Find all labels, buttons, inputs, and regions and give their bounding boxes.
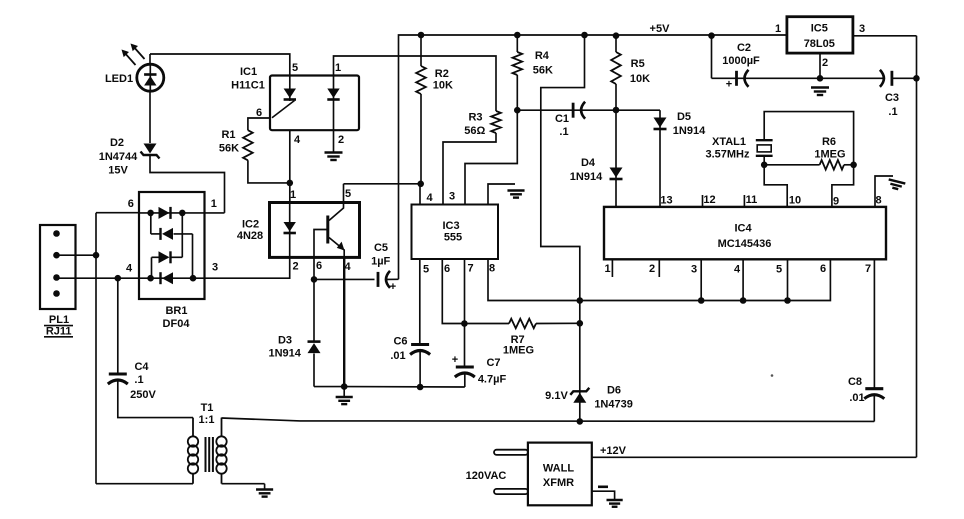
svg-text:1: 1	[335, 62, 341, 74]
svg-text:C4: C4	[134, 361, 149, 373]
svg-text:56K: 56K	[219, 143, 239, 155]
svg-text:4N28: 4N28	[237, 230, 263, 242]
svg-text:3: 3	[449, 191, 455, 203]
svg-text:1N914: 1N914	[570, 171, 603, 183]
svg-text:.01: .01	[390, 350, 405, 362]
svg-text:D6: D6	[607, 385, 621, 397]
svg-text:H11C1: H11C1	[231, 80, 265, 92]
svg-text:.1: .1	[134, 374, 143, 386]
svg-text:5: 5	[345, 188, 351, 200]
svg-text:+: +	[452, 354, 458, 366]
svg-text:IC1: IC1	[240, 66, 257, 78]
svg-text:1N914: 1N914	[268, 348, 301, 360]
svg-text:1MEG: 1MEG	[814, 149, 845, 161]
svg-text:6: 6	[256, 107, 262, 119]
svg-text:4: 4	[294, 134, 301, 146]
svg-text:R4: R4	[535, 50, 550, 62]
svg-text:C5: C5	[374, 242, 388, 254]
svg-text:R3: R3	[468, 112, 482, 124]
svg-text:3: 3	[691, 264, 697, 276]
svg-text:1000µF: 1000µF	[722, 55, 760, 67]
svg-text:IC4: IC4	[734, 223, 752, 235]
svg-text:56K: 56K	[533, 65, 553, 77]
svg-text:8: 8	[489, 263, 495, 275]
svg-text:MC145436: MC145436	[718, 238, 772, 250]
svg-text:IC5: IC5	[811, 23, 828, 35]
svg-text:1:1: 1:1	[199, 414, 215, 426]
svg-text:WALL: WALL	[543, 463, 574, 475]
svg-text:5: 5	[292, 62, 298, 74]
svg-text:56Ω: 56Ω	[464, 125, 485, 137]
svg-text:D3: D3	[278, 335, 292, 347]
svg-text:4: 4	[344, 261, 351, 273]
svg-text:IC2: IC2	[242, 219, 259, 231]
svg-text:5: 5	[776, 264, 782, 276]
svg-text:C2: C2	[737, 42, 751, 54]
svg-text:+: +	[390, 281, 396, 293]
svg-text:+: +	[726, 79, 732, 91]
svg-text:9: 9	[833, 196, 839, 208]
svg-text:LED1: LED1	[105, 73, 133, 85]
svg-text:3.57MHz: 3.57MHz	[705, 149, 750, 161]
svg-text:.1: .1	[888, 106, 897, 118]
svg-text:12: 12	[703, 194, 715, 206]
svg-text:.1: .1	[559, 126, 568, 138]
svg-text:D5: D5	[677, 111, 691, 123]
svg-text:8: 8	[875, 195, 881, 207]
svg-text:1: 1	[211, 198, 217, 210]
svg-text:120VAC: 120VAC	[466, 470, 507, 482]
svg-text:1N914: 1N914	[673, 125, 706, 137]
svg-text:6: 6	[316, 260, 322, 272]
svg-text:7: 7	[865, 263, 871, 275]
svg-text:C6: C6	[393, 336, 407, 348]
svg-text:1N4744: 1N4744	[99, 151, 138, 163]
svg-text:BR1: BR1	[165, 305, 187, 317]
svg-text:2: 2	[822, 57, 828, 69]
svg-text:1: 1	[604, 263, 610, 275]
svg-text:78L05: 78L05	[804, 38, 835, 50]
svg-text:XFMR: XFMR	[543, 477, 574, 489]
svg-text:1: 1	[290, 189, 296, 201]
svg-text:10K: 10K	[630, 73, 650, 85]
svg-text:R2: R2	[435, 68, 449, 80]
svg-text:10: 10	[789, 195, 801, 207]
svg-text:1: 1	[775, 23, 781, 35]
svg-text:2: 2	[292, 261, 298, 273]
svg-text:T1: T1	[201, 402, 214, 414]
svg-text:555: 555	[444, 232, 462, 244]
svg-text:7: 7	[467, 263, 473, 275]
svg-text:PL1: PL1	[49, 314, 69, 326]
svg-text:C8: C8	[848, 376, 862, 388]
svg-text:R6: R6	[822, 136, 836, 148]
svg-text:2: 2	[649, 263, 655, 275]
svg-text:2: 2	[338, 134, 344, 146]
svg-text:R1: R1	[221, 129, 235, 141]
svg-text:15V: 15V	[108, 165, 128, 177]
svg-text:6: 6	[128, 198, 134, 210]
svg-text:IC3: IC3	[442, 220, 459, 232]
svg-text:3: 3	[859, 23, 865, 35]
svg-text:10K: 10K	[433, 80, 453, 92]
svg-text:4: 4	[734, 264, 741, 276]
svg-text:R5: R5	[631, 58, 645, 70]
svg-text:4: 4	[426, 192, 433, 204]
svg-text:9.1V: 9.1V	[545, 390, 568, 402]
svg-text:4.7µF: 4.7µF	[478, 374, 507, 386]
svg-text:XTAL1: XTAL1	[712, 136, 746, 148]
svg-text:C3: C3	[885, 92, 899, 104]
svg-text:RJ11: RJ11	[46, 326, 72, 338]
svg-text:D4: D4	[581, 157, 596, 169]
svg-text:D2: D2	[110, 137, 124, 149]
svg-text:.01: .01	[849, 392, 864, 404]
svg-text:1MEG: 1MEG	[503, 345, 534, 357]
svg-text:DF04: DF04	[163, 318, 191, 330]
svg-text:5: 5	[423, 264, 429, 276]
svg-text:1N4739: 1N4739	[594, 399, 633, 411]
svg-text:6: 6	[444, 263, 450, 275]
svg-text:11: 11	[746, 194, 758, 206]
svg-text:4: 4	[126, 263, 133, 275]
svg-text:1µF: 1µF	[371, 256, 390, 268]
svg-text:3: 3	[212, 262, 218, 274]
svg-text:250V: 250V	[130, 389, 156, 401]
svg-text:6: 6	[820, 263, 826, 275]
svg-text:C7: C7	[486, 357, 500, 369]
svg-text:+12V: +12V	[600, 445, 627, 457]
svg-text:13: 13	[660, 195, 672, 207]
svg-text:C1: C1	[555, 113, 569, 125]
svg-text:+5V: +5V	[650, 23, 671, 35]
